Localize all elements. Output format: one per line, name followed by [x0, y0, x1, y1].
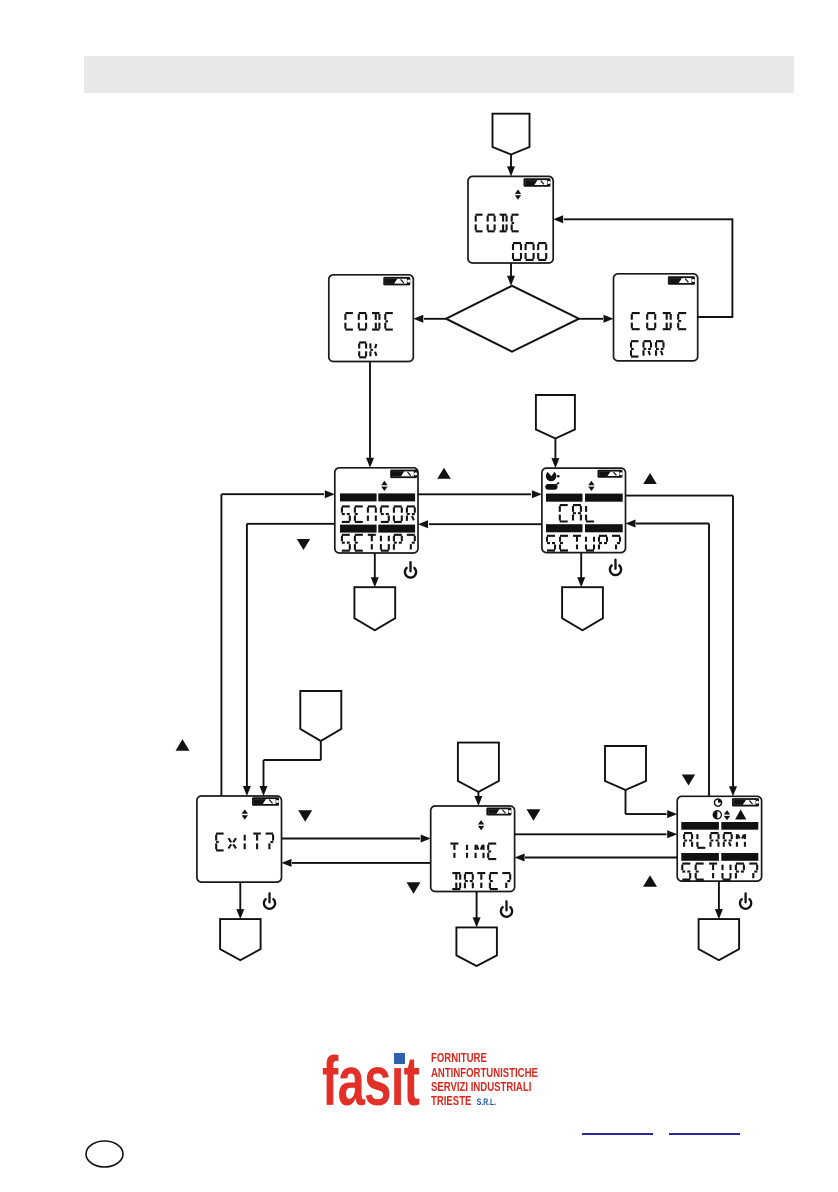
wire pentagon to ALARM box — [625, 790, 627, 814]
wire CODE ERR feedback loop to CODE box — [698, 316, 733, 318]
arrow into pentagon below CAL — [577, 577, 585, 587]
battery icon CAL box — [598, 470, 623, 478]
LCD text SETUP?(alarm) — [682, 864, 757, 880]
battery icon CODE OK box — [383, 277, 410, 286]
arrow into ALARM left (entry) — [667, 810, 677, 818]
connector pentagon below TIME — [456, 927, 497, 966]
LCD text CAL — [560, 505, 594, 521]
display box CAL SETUP? — [542, 468, 626, 552]
mode icon ALARM box — [713, 811, 721, 819]
highlight bar SENSOR row1 — [340, 493, 377, 501]
battery icon EXIT box — [252, 797, 279, 806]
decision diamond — [446, 286, 579, 352]
power icon TIME — [501, 901, 512, 916]
power icon SENSOR — [405, 562, 416, 577]
LCD text CODE — [476, 215, 519, 232]
entry connector pentagon above ALARM — [605, 746, 646, 790]
wire ALARM to TIME — [525, 857, 677, 859]
triangle down below TIME left — [407, 882, 421, 894]
battery icon SENSOR box — [390, 470, 417, 479]
display box ALARM SETUP? — [677, 796, 761, 881]
battery icon CODE box — [524, 178, 551, 187]
entry connector pentagon above EXIT — [300, 691, 341, 741]
arrow into pentagon below EXIT — [236, 909, 244, 919]
wire TIME to EXIT — [292, 862, 431, 864]
highlight bar SENSOR row2 — [340, 525, 377, 533]
power icon EXIT — [264, 893, 275, 908]
wire TIME to ALARM — [515, 833, 667, 835]
LCD text SETUP?(sensor) — [342, 535, 415, 551]
wire SENSOR down to connector — [374, 553, 376, 579]
highlight bar ALARM row2 — [681, 853, 719, 861]
arrow into CODE OK box — [413, 315, 423, 323]
LCD text CODE(err box) — [632, 313, 687, 329]
arrow into TIME top — [474, 796, 482, 806]
arrow into CAL left — [532, 490, 542, 498]
wire EXIT to TIME — [282, 838, 421, 840]
LCD text 000 — [513, 243, 546, 260]
arrow into EXIT top (entry) — [260, 786, 268, 796]
connector pentagon below SENSOR — [354, 587, 395, 630]
gas cylinder icon CAL box — [545, 483, 559, 490]
arrow into SENSOR left — [325, 490, 335, 498]
up-down indicator TIME box — [478, 820, 484, 830]
link underline 1 — [582, 1133, 654, 1135]
wire EXIT up to SENSOR — [220, 494, 222, 796]
LCD text TIME — [450, 844, 496, 860]
display box EXIT? — [197, 796, 282, 882]
triangle down between EXIT and TIME — [298, 810, 312, 822]
wire SENSOR down to EXIT — [247, 523, 335, 525]
entry connector pentagon above CAL — [536, 395, 575, 439]
up-down indicator CODE box — [515, 190, 521, 200]
battery icon CODE ERR box — [668, 276, 695, 285]
wire diamond to CODE OK — [424, 318, 446, 320]
arrow into CODE ERR box — [604, 315, 614, 323]
LCD text ALARM — [684, 833, 745, 848]
connector pentagon below ALARM — [699, 919, 740, 960]
wire EXIT down to connector — [239, 882, 241, 910]
triangle down between TIME and ALARM — [527, 809, 541, 821]
ellipse mark bottom left — [84, 1139, 126, 1169]
wire pentagon to EXIT box — [320, 741, 322, 760]
warning triangle icon ALARM box — [735, 810, 746, 820]
wire ALARM down to connector — [718, 881, 720, 910]
wire CAL down to connector — [580, 553, 582, 579]
power icon CAL — [610, 560, 621, 575]
arrow into CAL box top — [551, 458, 559, 468]
highlight bar CAL row1 — [546, 494, 583, 502]
LCD text DATE? — [452, 873, 510, 889]
header bar — [84, 56, 794, 93]
triangle down left of SENSOR — [297, 539, 310, 550]
arrow into TIME right — [515, 854, 525, 862]
display box TIME DATE? — [431, 806, 515, 892]
LCD text ERR — [631, 341, 664, 356]
triangle up between TIME and ALARM — [643, 875, 657, 887]
wire SENSOR to CAL (up) — [418, 493, 531, 495]
battery icon TIME box — [486, 808, 511, 816]
wire pentagon to TIME box — [477, 792, 479, 798]
up-down indicator EXIT box — [242, 809, 248, 819]
highlight bar ALARM row1 — [681, 822, 719, 830]
LCD text EXIT? — [216, 834, 273, 851]
fasit logo — [322, 1046, 419, 1116]
up-down indicator CAL box — [588, 481, 594, 491]
display box CODE 000 — [468, 176, 553, 263]
wire TIME down to connector — [476, 892, 478, 919]
display box CODE ERR — [614, 274, 698, 361]
highlight bar CAL row2 — [546, 524, 583, 532]
arrow into TIME left — [421, 835, 431, 843]
company text block — [431, 1051, 538, 1110]
arrow into EXIT top (from SENSOR) — [243, 786, 251, 796]
connector pentagon below EXIT — [220, 919, 261, 960]
power icon ALARM — [740, 893, 751, 908]
arrow feedback into CODE box right — [553, 215, 563, 223]
wire CODE OK down to SENSOR SETUP — [369, 362, 371, 460]
arrow into diamond — [507, 276, 515, 286]
arrow into CAL right — [626, 520, 636, 528]
LCD text CODE(ok box) — [345, 313, 392, 330]
triangle down above ALARM — [682, 775, 695, 786]
wire diamond to CODE ERR — [579, 318, 603, 320]
logo i dot (blue square) — [394, 1053, 405, 1064]
clock icon ALARM box — [714, 799, 721, 806]
arrow into SENSOR right — [418, 520, 428, 528]
arrow into ALARM top — [729, 786, 737, 796]
LCD text OK — [359, 342, 376, 357]
wire CAL to SENSOR (down) — [429, 523, 542, 525]
arrow into pentagon below TIME — [473, 917, 481, 927]
battery icon ALARM box — [732, 798, 759, 806]
wire pentagon to CAL box — [554, 439, 556, 460]
up-down indicator ALARM box — [724, 810, 730, 820]
LCD text SENSOR — [342, 506, 415, 522]
wire ALARM up to CAL — [708, 524, 710, 797]
arrow into pentagon below SENSOR — [371, 577, 379, 587]
triangle up right of CAL — [643, 473, 657, 484]
arrow into SENSOR SETUP top — [366, 458, 374, 468]
up-down indicator SENSOR box — [381, 481, 387, 491]
arrow into ALARM left — [667, 830, 677, 838]
wire CODE box to decision diamond — [510, 263, 512, 278]
LCD text SETUP?(cal) — [547, 536, 620, 551]
entry connector pentagon above TIME — [458, 743, 499, 792]
triangle up left of EXIT — [176, 739, 190, 751]
calibration icon CAL box — [545, 471, 559, 483]
entry connector pentagon top — [493, 114, 530, 155]
display box CODE OK — [329, 275, 414, 362]
arrow into CODE box — [507, 166, 515, 176]
link underline 2 — [669, 1133, 741, 1135]
arrow into pentagon below ALARM — [715, 909, 723, 919]
wire CAL right down to ALARM — [626, 495, 734, 497]
connector pentagon below CAL — [562, 587, 603, 630]
wire pentagon to CODE box — [510, 154, 512, 168]
triangle up near SENSOR/CAL — [437, 468, 451, 479]
display box SENSOR SETUP? — [335, 468, 418, 553]
arrow into EXIT right — [282, 859, 292, 867]
